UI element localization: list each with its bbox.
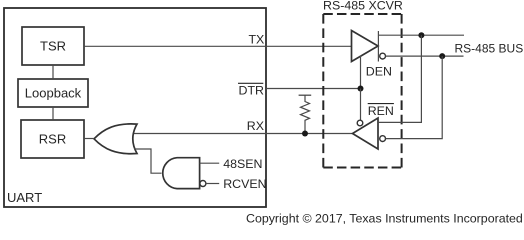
- wire RX: OR gate input to receiver output tip: [133, 133, 353, 135]
- wire REN stub from DTR to REN bubble: [360, 89, 362, 121]
- wire TSR to Loopback: [52, 65, 54, 79]
- svg-text:RS-485 XCVR: RS-485 XCVR: [323, 0, 403, 12]
- bubble REN enable: [357, 120, 363, 126]
- junction dot bus B: [439, 53, 445, 59]
- svg-text:RCVEN: RCVEN: [223, 177, 266, 191]
- wire 48SEN input: [200, 162, 220, 164]
- svg-text:Copyright © 2017, Texas Instru: Copyright © 2017, Texas Instruments Inco…: [246, 211, 523, 225]
- wire TX: TSR output to driver input: [84, 45, 352, 47]
- wire bus line B: [386, 55, 464, 57]
- svg-text:TSR: TSR: [40, 39, 66, 54]
- bubble on RCVEN input: [200, 181, 206, 187]
- label DTR (active low, overline): [238, 83, 264, 97]
- or-gate U1 (mirrored, output left to RSR): [94, 124, 137, 154]
- svg-text:RX: RX: [247, 119, 264, 133]
- wire bus line A: [378, 34, 464, 36]
- driver output bar: [377, 31, 379, 62]
- resistor R1: [301, 95, 310, 133]
- bubble receiver inverting input: [380, 136, 386, 142]
- label REN (active low, overline): [368, 104, 394, 118]
- wire DTR: UART edge to DEN junction: [266, 88, 361, 90]
- dashed box RS-485 XCVR: [323, 14, 401, 168]
- svg-text:TX: TX: [248, 33, 264, 47]
- wire NAND output to OR lower input: [134, 149, 162, 173]
- svg-text:DTR: DTR: [239, 84, 265, 98]
- bubble driver inverting output: [380, 53, 386, 59]
- svg-text:REN: REN: [368, 104, 394, 118]
- wire Loopback to RSR: [52, 107, 54, 120]
- wire receiver input A: [378, 35, 421, 122]
- junction dot bus A: [418, 32, 424, 38]
- block RSR: [21, 120, 84, 158]
- wire DEN stub from driver to DTR: [360, 56, 362, 89]
- nand-gate U2 (mirrored AND body, output left): [163, 158, 200, 189]
- driver buffer D (triangle): [352, 31, 379, 62]
- block TSR: [22, 27, 84, 65]
- svg-text:RS-485 BUS: RS-485 BUS: [455, 41, 524, 55]
- wire RCVEN input: [206, 183, 219, 185]
- svg-text:48SEN: 48SEN: [223, 157, 262, 171]
- block Loopback: [18, 79, 88, 107]
- junction dot DEN/DTR: [358, 86, 364, 92]
- svg-text:RSR: RSR: [39, 132, 66, 147]
- wire receiver input B: [386, 56, 443, 139]
- svg-text:DEN: DEN: [366, 64, 392, 78]
- block UART box: [4, 8, 266, 207]
- resistor R1 pull-up rail bar: [299, 94, 312, 96]
- svg-text:Loopback: Loopback: [25, 86, 82, 101]
- junction dot resistor/RX: [302, 131, 308, 137]
- receiver buffer R (triangle, output left): [353, 118, 379, 149]
- wire OR output to RSR: [84, 138, 94, 140]
- svg-text:UART: UART: [7, 190, 42, 205]
